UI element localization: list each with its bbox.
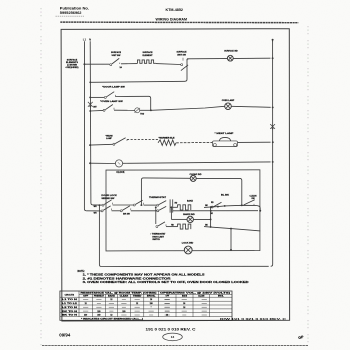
svg-text:18: 18	[183, 307, 185, 309]
svg-text:BAKE: BAKE	[187, 199, 194, 202]
svg-text:L2 TO N: L2 TO N	[62, 307, 79, 309]
wire row5 to lamp	[176, 141, 212, 143]
node rowA clear-ind tie	[140, 204, 142, 206]
resistor bake element	[178, 205, 191, 210]
svg-text:HIGH LIMIT: HIGH LIMIT	[152, 236, 164, 238]
node main row x210	[210, 206, 212, 208]
node broil corner	[230, 228, 232, 230]
resistor broil element	[178, 224, 191, 229]
lamp meat lamp assembly	[213, 141, 238, 147]
switch S2 surface unit sw	[181, 64, 183, 66]
node clean sw tie	[259, 210, 261, 212]
right fold mark	[307, 26, 309, 346]
svg-text:240: 240	[97, 314, 100, 317]
svg-text:CLEAN: CLEAN	[198, 295, 205, 298]
lamp clear ind	[190, 175, 196, 181]
bus N	[90, 41, 93, 205]
svg-text:DK TO N: DK TO N	[62, 311, 78, 313]
svg-text:BAKE IND: BAKE IND	[183, 213, 195, 216]
node row6 at bus L2	[272, 161, 274, 163]
lamp surface ind	[227, 55, 233, 61]
svg-text:BL BK: BL BK	[221, 194, 230, 196]
switch S4 oven lamp sw	[103, 109, 105, 111]
node broil riser top	[155, 206, 157, 208]
bus L1	[84, 41, 86, 211]
node main row x225	[224, 205, 226, 207]
wire clear ind to right	[196, 178, 242, 205]
svg-text:120: 120	[122, 311, 125, 313]
oven control box	[106, 170, 260, 251]
svg-text:1. * THESE COMPONENTS MAY NOT: 1. * THESE COMPONENTS MAY NOT APPEAR ON …	[83, 274, 206, 277]
svg-text:18: 18	[150, 299, 152, 301]
switch S10 broil sw	[214, 202, 222, 207]
wire row5 dashed	[127, 139, 158, 141]
svg-text:12: 12	[166, 315, 168, 317]
lamp lock ind	[184, 246, 192, 254]
wire row3 left	[90, 96, 104, 98]
switch S11 broil row	[156, 226, 158, 228]
wire broil right	[204, 227, 260, 231]
node row5 junction on N	[89, 144, 91, 146]
svg-text:*OVEN LAMP SW: *OVEN LAMP SW	[100, 100, 123, 103]
wire row4 left	[90, 109, 103, 112]
svg-text:BR SW: BR SW	[123, 214, 130, 216]
wire row1 left	[84, 63, 109, 65]
svg-text:N: N	[89, 38, 91, 42]
fuse TOD thermal	[135, 108, 140, 113]
node row2 junction on N	[89, 81, 91, 83]
svg-text:KTM-4852: KTM-4852	[166, 8, 183, 12]
svg-text:BROIL: BROIL	[218, 296, 224, 298]
wire rowA to thermostat	[144, 204, 157, 206]
svg-text:DOOR LOCK: DOOR LOCK	[101, 195, 117, 197]
svg-text:BROIL: BROIL	[147, 296, 157, 298]
table cell values	[83, 299, 88, 301]
diagram border frame	[61, 29, 290, 321]
svg-text:120: 120	[150, 303, 153, 305]
wire row1 mid	[121, 63, 138, 65]
wire row3 right	[115, 96, 150, 110]
node row4 at bus L2	[272, 106, 274, 108]
svg-text:09/94: 09/94	[59, 332, 71, 337]
svg-text:12: 12	[110, 315, 112, 317]
svg-text:OVEN LAMP: OVEN LAMP	[222, 99, 235, 102]
switch S8 rowB first	[101, 210, 103, 212]
svg-text:TIMED: TIMED	[133, 296, 143, 298]
wire rowB left	[86, 210, 101, 212]
svg-text:3. OVEN CONNECTED: ALL CONTRO: 3. OVEN CONNECTED: ALL CONTROLS SET TO O…	[83, 281, 250, 284]
resistor warmer element	[158, 140, 176, 146]
node bake ind tie	[210, 218, 212, 220]
svg-text:L1 TO L2: L1 TO L2	[62, 303, 77, 305]
switch S6 door lock sense	[102, 204, 104, 206]
wire lower row under bake	[173, 210, 258, 212]
table outer frame	[60, 291, 232, 320]
svg-text:SURFACE IND: SURFACE IND	[224, 49, 238, 52]
svg-text:SURFACE: SURFACE	[111, 51, 122, 54]
header underline rule	[60, 21, 298, 24]
wire bake ind left drop	[170, 207, 172, 219]
svg-text:UNIT SW: UNIT SW	[112, 55, 121, 57]
svg-text:THERMOSTAT: THERMOSTAT	[149, 196, 167, 199]
node row4 junction on N	[89, 110, 91, 112]
svg-text:* INDICATES CIRCUIT ENERGIZED: * INDICATES CIRCUIT ENERGIZED (ALL...)	[81, 317, 144, 320]
lamp bake ind	[187, 216, 193, 222]
svg-text:L1 TO N: L1 TO N	[62, 299, 79, 301]
svg-text:PREHEAT: PREHEAT	[94, 295, 105, 298]
svg-text:2. #1 DENOTES HARDWARE CONNECT: 2. #1 DENOTES HARDWARE CONNECTOR	[83, 277, 172, 280]
connector X on bus N	[88, 102, 93, 107]
svg-text:NOTE:: NOTE:	[78, 271, 85, 273]
wire row4 fuse to junction	[140, 109, 151, 111]
switch S3 door lamp sw	[104, 96, 106, 98]
switch S9 rowB second	[120, 210, 122, 212]
svg-text:*DOOR LAMP SW: *DOOR LAMP SW	[102, 86, 125, 89]
wire row5 to bus	[238, 141, 271, 143]
node main row at box edge	[259, 210, 261, 212]
wire main row right	[204, 205, 260, 210]
resistor surface element	[138, 60, 156, 63]
switch thermostat upper pole	[157, 204, 159, 206]
svg-text:4 REQUIRED): 4 REQUIRED)	[66, 66, 79, 69]
svg-text:5995256962: 5995256962	[60, 10, 82, 15]
svg-text:ELEMENT: ELEMENT	[143, 55, 154, 57]
svg-text:SWITCH: SWITCH	[152, 239, 160, 241]
node row1 at bus L2	[272, 57, 274, 59]
svg-text:12: 12	[85, 303, 87, 305]
wire row6 right	[123, 162, 271, 163]
node lock row x231	[230, 249, 232, 251]
wire bake ind right	[193, 218, 210, 220]
svg-text:BAKE: BAKE	[108, 295, 116, 298]
node main row x241	[241, 204, 243, 206]
svg-text:L1: L1	[83, 38, 87, 42]
svg-text:SURFACE: SURFACE	[143, 51, 154, 54]
svg-text:CLEAN: CLEAN	[120, 295, 129, 298]
wire row1 jog vertical	[185, 59, 187, 81]
wire clear ind feed up	[141, 178, 190, 205]
svg-text:12: 12	[110, 299, 112, 301]
svg-text:LAMP: LAMP	[106, 137, 112, 140]
page number ellipse	[163, 333, 183, 341]
wire broil to element	[166, 226, 178, 228]
wire rowB mid	[112, 210, 121, 212]
wire row6 left	[90, 162, 115, 164]
svg-text:R/W 191 0 021 0 010 REV. C: R/W 191 0 021 0 010 REV. C	[220, 317, 286, 321]
publication underline	[56, 15, 85, 17]
svg-text:CLOCK: CLOCK	[116, 172, 125, 174]
wire rowA mid	[113, 204, 134, 206]
wire bottom wrap	[99, 265, 268, 267]
svg-text:OPERATING VOL. @ 240V (VOLTS): OPERATING VOL. @ 240V (VOLTS)	[160, 292, 231, 295]
svg-text:SURFACE: SURFACE	[177, 51, 188, 54]
svg-text:WIRING DIAGRAM: WIRING DIAGRAM	[156, 16, 188, 21]
svg-text:13: 13	[171, 335, 175, 339]
wire row4 to fuse	[114, 109, 135, 111]
table grid lines	[79, 293, 232, 295]
wire row5 left	[90, 143, 113, 146]
wire row1 to switch 2	[156, 63, 181, 66]
node row5 at bus L2	[272, 141, 274, 143]
svg-text:12: 12	[136, 303, 138, 305]
bus L2 right	[271, 40, 273, 267]
svg-text:*WARM: *WARM	[105, 134, 112, 137]
lamp oven lamp	[225, 103, 232, 110]
svg-text:* MEAT LAMP: * MEAT LAMP	[215, 132, 235, 135]
svg-text:CIRCUITS: CIRCUITS	[65, 294, 75, 296]
node row1 junction on L1	[83, 63, 85, 65]
wire x210 riser	[210, 207, 212, 226]
wire row4 right	[151, 106, 225, 110]
switch S5 warm lamp sw	[113, 143, 115, 145]
svg-text:↑ THERMOSTAT: ↑ THERMOSTAT	[150, 233, 166, 236]
wire row1 right segment	[187, 57, 271, 60]
svg-text:BK TO N: BK TO N	[62, 315, 78, 317]
node main row after thermostat	[170, 206, 172, 208]
svg-text:UNIT SW: UNIT SW	[177, 54, 186, 56]
switch S12 clean sw	[244, 200, 255, 205]
wire rowB to thermostat	[131, 210, 157, 212]
svg-text:SENSE SW: SENSE SW	[101, 198, 114, 200]
wire left riser	[98, 205, 100, 264]
svg-text:120: 120	[97, 311, 100, 313]
wire main row	[173, 206, 178, 208]
wire rowA left	[93, 204, 102, 206]
switch S7 rowA second	[133, 204, 135, 206]
svg-text:191 0 021 0 010 REV. C: 191 0 021 0 010 REV. C	[146, 327, 197, 331]
wire row2	[90, 81, 185, 82]
node broil x210	[210, 226, 212, 228]
switch thermostat lower pole	[157, 210, 159, 212]
node row3 junction on N	[89, 96, 91, 98]
svg-text:26: 26	[183, 303, 185, 305]
footer rule	[42, 344, 308, 346]
svg-text:TOD: TOD	[140, 114, 145, 116]
svg-text:RESISTANCE VAL. @ ROOM TEMP. (: RESISTANCE VAL. @ ROOM TEMP. (OHMS)	[81, 292, 158, 295]
wire broil left riser	[155, 207, 157, 224]
svg-text:BAKE: BAKE	[182, 295, 188, 298]
thermostat bimetal bars	[169, 199, 171, 212]
node row6 junction on N	[89, 162, 91, 164]
connector X on bus L2	[270, 124, 275, 129]
left fold mark	[40, 8, 42, 346]
motor clock	[115, 160, 122, 167]
node row4 junction with row3	[150, 109, 152, 111]
node rowA vertical tie	[98, 204, 100, 206]
svg-text:240: 240	[84, 314, 87, 317]
svg-text:LOCK IND: LOCK IND	[182, 243, 194, 245]
node L2 top tick	[272, 39, 274, 41]
wire row4 to bus	[231, 106, 270, 107]
switch S1 surface unit sw	[110, 64, 112, 66]
node lower row x210	[210, 210, 212, 212]
